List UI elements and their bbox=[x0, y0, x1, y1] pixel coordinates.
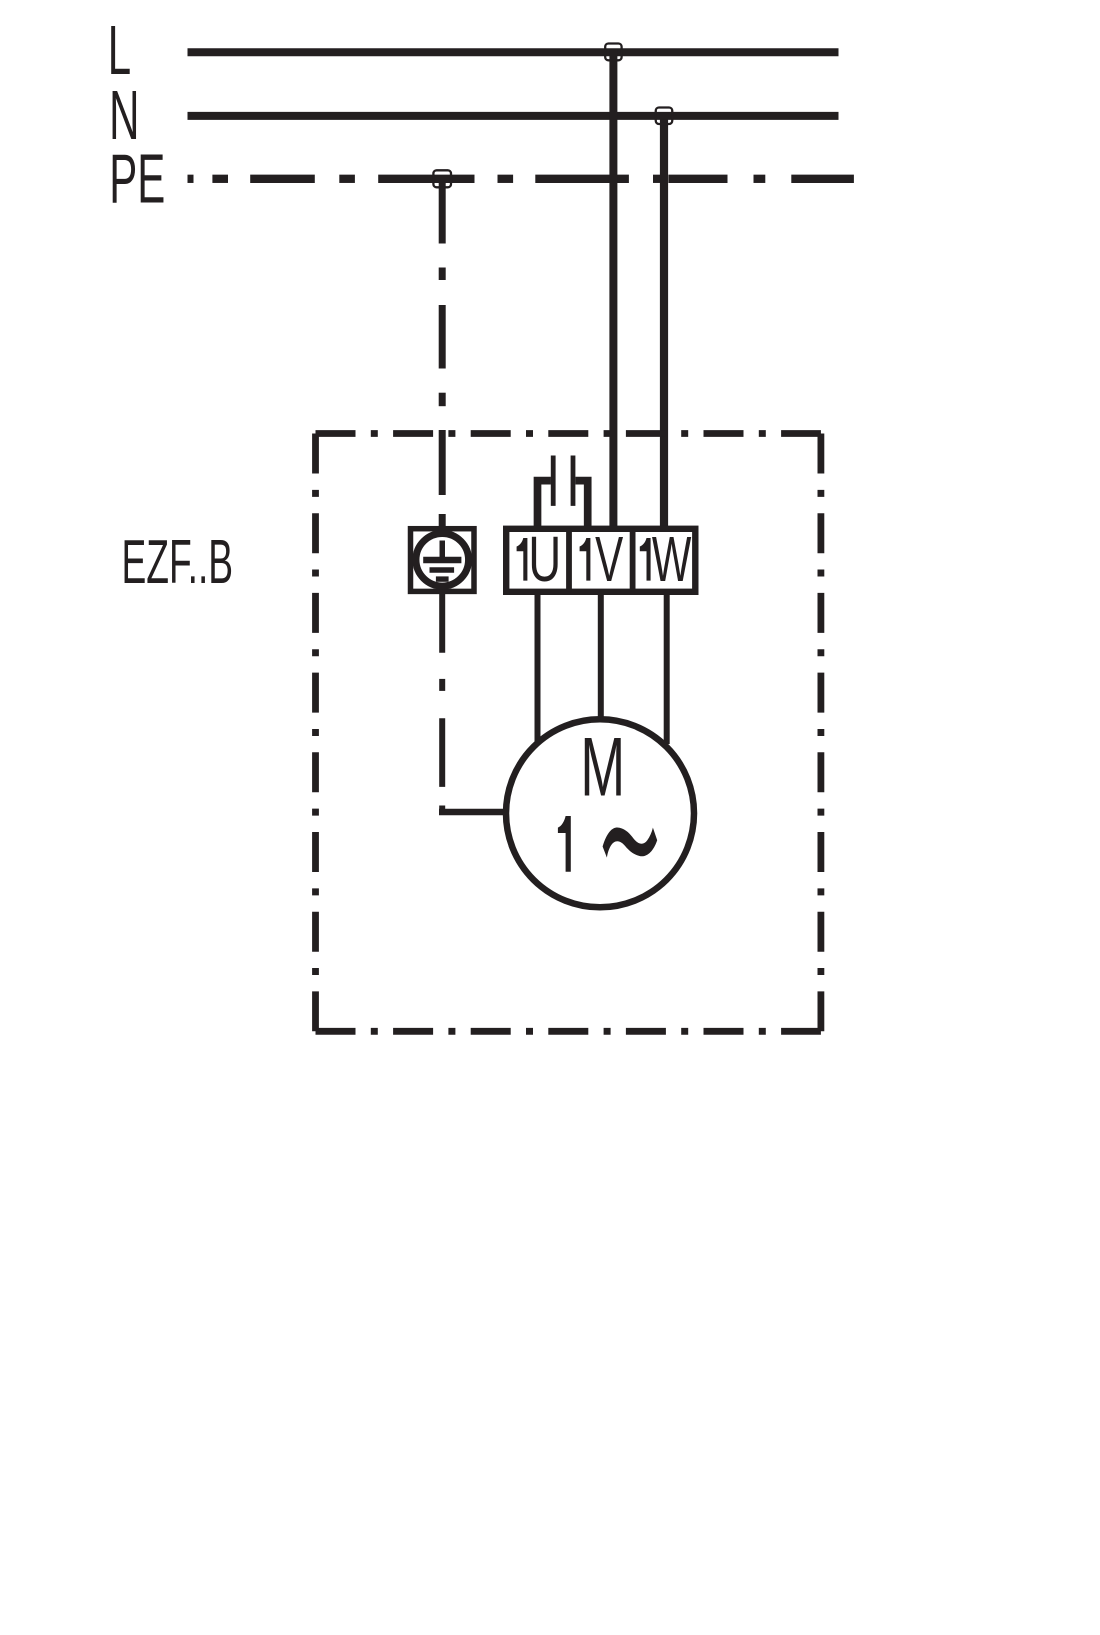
motor tilde bbox=[603, 828, 658, 858]
svg-text:M: M bbox=[580, 719, 625, 813]
svg-text:U: U bbox=[528, 523, 561, 595]
earth terminal: circle bbox=[416, 534, 469, 587]
label EZF..B bbox=[122, 527, 234, 596]
label PE bbox=[109, 141, 165, 219]
earth wire horizontal to motor bbox=[439, 809, 507, 816]
earth wire below square (dash-dot) bbox=[439, 594, 445, 812]
motor M1 circle bbox=[506, 719, 694, 907]
label L bbox=[108, 12, 131, 90]
wire 1W to motor bbox=[664, 592, 670, 744]
wire N to terminal 1W (thick vertical) bbox=[660, 112, 668, 530]
terminal block outer bbox=[506, 529, 695, 592]
PE drop wire (dash-dot vertical) bbox=[439, 182, 446, 527]
terminal divider 1V|1W bbox=[630, 529, 636, 592]
thermal contact: left prong bbox=[551, 456, 556, 506]
thermal contact: left lead bbox=[538, 481, 551, 528]
terminal label 1V bbox=[580, 524, 624, 595]
wire L to terminal 1V (thick vertical) bbox=[609, 49, 617, 531]
svg-text:PE: PE bbox=[109, 141, 165, 219]
bus line PE (dash-dot) bbox=[188, 175, 854, 183]
earth terminal: outer square bbox=[411, 529, 475, 592]
tap clamp on N bbox=[656, 108, 673, 125]
bus line N bbox=[188, 112, 839, 120]
terminal divider 1U|1V bbox=[566, 529, 572, 592]
earth symbol inside: stem bbox=[440, 541, 446, 559]
earth symbol: small bar bbox=[436, 576, 449, 581]
label N bbox=[109, 77, 139, 155]
enclosure box EZF..B (dash-dot rectangle) bbox=[316, 434, 821, 1032]
terminal label 1W bbox=[640, 524, 692, 595]
motor label 1 bbox=[558, 816, 571, 872]
wire 1V to motor bbox=[598, 592, 604, 718]
thermal contact: right lead bbox=[576, 481, 588, 528]
bus line L bbox=[188, 48, 839, 56]
tap clamp on L bbox=[605, 44, 621, 61]
svg-text:W: W bbox=[652, 524, 691, 595]
thermal contact: right prong bbox=[571, 456, 576, 506]
svg-text:EZF..B: EZF..B bbox=[122, 527, 234, 596]
svg-text:V: V bbox=[595, 524, 623, 595]
motor label M bbox=[580, 719, 625, 813]
wire 1U to motor bbox=[535, 592, 541, 742]
earth symbol: wide bar bbox=[423, 557, 461, 563]
earth symbol: middle bar bbox=[430, 567, 455, 572]
terminal label 1U bbox=[517, 523, 562, 595]
tap clamp on PE bbox=[433, 170, 451, 187]
